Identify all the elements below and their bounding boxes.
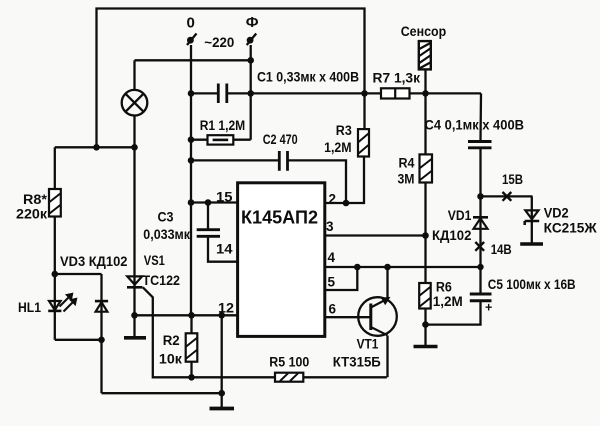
svg-text:12: 12 — [218, 301, 234, 316]
wire bottom row — [102, 392, 222, 394]
resistor R2 — [186, 333, 198, 361]
wire 0 column — [190, 45, 192, 315]
svg-text:КТ315Б: КТ315Б — [333, 355, 381, 370]
wire lamp column top — [133, 60, 135, 90]
x-mark 14V — [475, 242, 484, 251]
svg-text:15В: 15В — [502, 172, 523, 187]
LED HL1 arrows — [60, 296, 75, 312]
node 0-column pin15 — [188, 199, 195, 206]
svg-text:5: 5 — [328, 275, 336, 290]
svg-text:4: 4 — [328, 250, 336, 265]
wire R4 to R6 — [424, 183, 426, 284]
node R2 pin12 row — [188, 312, 195, 319]
wire pin6 row — [325, 316, 371, 318]
thyristor VS1 column — [133, 147, 135, 336]
lamp EL1 circle — [122, 90, 148, 116]
svg-text:6: 6 — [329, 302, 337, 317]
node 0-column C2 — [188, 157, 195, 164]
node C2 pin2 — [343, 200, 350, 207]
wire pin12 ground column — [221, 315, 223, 407]
svg-text:~220: ~220 — [204, 35, 234, 50]
plug pin 0 — [187, 34, 197, 46]
wire R3 top — [363, 93, 365, 129]
svg-text:КС215Ж: КС215Ж — [544, 221, 598, 236]
resistor R5 — [275, 373, 303, 382]
diode VD1 — [474, 218, 488, 229]
thyristor VS1 — [127, 276, 142, 284]
node junction lamp column row147 — [131, 144, 138, 151]
wire top rail — [97, 9, 365, 148]
node phase column C1 — [247, 90, 254, 97]
svg-text:R3: R3 — [336, 123, 352, 138]
wire VD3 drop — [100, 340, 102, 393]
wire C4 to 15V row — [479, 148, 481, 197]
node junction v-left row147 — [93, 144, 100, 151]
svg-text:14: 14 — [216, 242, 233, 257]
node junction phase column lamp row — [247, 57, 254, 64]
wire sensor column — [424, 69, 426, 154]
svg-text:0: 0 — [187, 15, 195, 32]
node VT1 collector — [384, 264, 391, 271]
IC U1 K145AP2 box — [238, 183, 325, 337]
resistor R6 — [419, 283, 431, 309]
resistor R4 — [420, 154, 433, 182]
wire HL1 row top — [55, 273, 102, 275]
wire pin4 row — [325, 266, 481, 268]
capacitor C4 — [468, 142, 492, 148]
svg-text:R8*: R8* — [23, 192, 48, 207]
svg-text:3М: 3М — [398, 172, 415, 187]
capacitor C2 — [279, 151, 287, 171]
node 0-column R1 — [188, 136, 195, 143]
wire R6 bottom — [424, 309, 426, 346]
svg-text:VD1: VD1 — [448, 208, 472, 223]
ground under R6 — [414, 345, 438, 349]
diode VD3 — [100, 274, 102, 340]
node rail R3 column — [361, 90, 368, 97]
capacitor C5 — [470, 294, 492, 301]
svg-text:К145АП2: К145АП2 — [241, 208, 318, 228]
wire VD1 column — [479, 196, 481, 293]
resistor R3 — [358, 129, 369, 156]
sensor pad E1 — [419, 41, 431, 69]
ground bar VD2 — [520, 242, 543, 246]
wire row y147 — [55, 146, 136, 148]
svg-text:VS1: VS1 — [144, 253, 165, 268]
svg-text:2: 2 — [329, 192, 337, 207]
wire R7 row — [365, 92, 482, 94]
svg-text:R6: R6 — [436, 280, 452, 295]
wire VS1 gate — [143, 287, 387, 377]
svg-text:VD3 КД102: VD3 КД102 — [60, 254, 128, 269]
svg-text:C5 100мк x 16В: C5 100мк x 16В — [488, 277, 576, 292]
node bottom row — [218, 390, 225, 397]
capacitor C3 — [197, 230, 220, 237]
node sensor column row93 — [422, 90, 429, 97]
node pin15 C3 — [205, 199, 212, 206]
wire lamp row y60 — [135, 59, 251, 61]
wire R8 column — [54, 147, 56, 274]
svg-text:3: 3 — [326, 219, 334, 234]
svg-text:C2 470: C2 470 — [263, 132, 298, 147]
wire VD2 column — [531, 196, 533, 242]
node R6 C5row — [422, 321, 429, 328]
svg-text:С3: С3 — [158, 210, 174, 225]
svg-text:C4 0,1мк x 400В: C4 0,1мк x 400В — [425, 118, 525, 133]
svg-text:0,033мк: 0,033мк — [143, 227, 190, 242]
svg-text:1,2М: 1,2М — [433, 294, 463, 309]
wire pin3 row — [325, 234, 426, 236]
svg-text:R1 1,2M: R1 1,2M — [200, 118, 246, 133]
svg-text:R2: R2 — [163, 333, 180, 348]
wire pin15 row — [191, 201, 238, 203]
wire HL1 row bottom — [55, 339, 102, 341]
node VS1 pin12 row — [131, 312, 138, 319]
svg-text:КД102: КД102 — [432, 228, 471, 243]
wire 15V row — [481, 195, 533, 197]
svg-text:15: 15 — [216, 190, 233, 205]
ground main — [210, 407, 235, 411]
wire pin2 row — [325, 157, 364, 204]
svg-text:ТС122: ТС122 — [143, 273, 181, 288]
LED HL1 — [54, 274, 56, 340]
svg-text:220к: 220к — [16, 207, 47, 222]
node HL1 top — [52, 271, 59, 278]
wire C3 column — [208, 203, 238, 262]
svg-text:C1 0,33мк x 400В: C1 0,33мк x 400В — [257, 70, 359, 85]
svg-text:10к: 10к — [159, 352, 182, 367]
plug pin F — [247, 34, 257, 46]
node pin3 R4 — [422, 232, 429, 239]
resistor R1 — [208, 135, 234, 144]
wire pin5 row — [325, 267, 358, 290]
svg-text:HL1: HL1 — [18, 300, 41, 315]
svg-text:R7 1,3к: R7 1,3к — [373, 71, 421, 86]
svg-text:VD2: VD2 — [544, 206, 569, 221]
wire C5 bottom — [426, 301, 481, 325]
wire phase column — [250, 45, 252, 140]
svg-text:1,2M: 1,2M — [324, 140, 352, 155]
wire C1 row — [191, 92, 365, 94]
node 15V row — [477, 193, 484, 200]
svg-text:Ф: Ф — [246, 14, 259, 31]
node pin4 row right end — [477, 264, 483, 270]
svg-text:R4: R4 — [399, 156, 415, 171]
svg-text:R5 100: R5 100 — [269, 355, 309, 370]
node pin5 riser — [354, 264, 361, 271]
wire pin12 row — [135, 314, 238, 316]
svg-text:VT1: VT1 — [357, 337, 379, 352]
node VD3 bottom — [98, 337, 105, 344]
capacitor C1 — [218, 84, 227, 104]
resistor R7 — [381, 88, 410, 98]
node R2 bottom — [188, 374, 195, 381]
ground under VS1 — [124, 336, 146, 340]
node gndcol pin12 row — [218, 312, 225, 319]
diode VD2 zener — [525, 210, 538, 219]
wire R1 row — [191, 139, 251, 141]
transistor VT1 — [358, 297, 397, 336]
svg-text:+: + — [485, 301, 492, 315]
wire R2 column — [190, 315, 192, 377]
resistor R8 — [49, 189, 61, 217]
svg-text:Сенсор: Сенсор — [401, 24, 447, 39]
wire C2 row — [191, 160, 346, 203]
x-mark 15V — [503, 192, 512, 201]
wire lamp column bottom — [133, 116, 135, 148]
svg-text:14В: 14В — [491, 242, 512, 257]
node 0-column C1 — [188, 90, 195, 97]
wire C4 column — [479, 93, 482, 141]
